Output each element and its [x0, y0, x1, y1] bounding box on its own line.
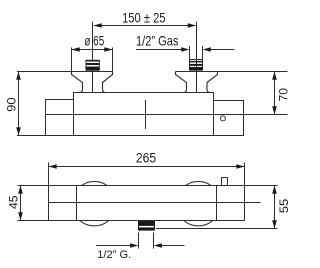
svg-text:55: 55	[277, 198, 291, 213]
svg-text:265: 265	[136, 150, 156, 166]
svg-text:1/2” Gas: 1/2” Gas	[136, 33, 178, 49]
svg-text:150 ± 25: 150 ± 25	[122, 9, 166, 25]
svg-text:ø 65: ø 65	[84, 34, 104, 49]
svg-text:45: 45	[7, 195, 21, 209]
svg-text:90: 90	[4, 97, 18, 112]
svg-text:1/2” G.: 1/2” G.	[97, 249, 131, 261]
svg-text:70: 70	[277, 88, 291, 102]
